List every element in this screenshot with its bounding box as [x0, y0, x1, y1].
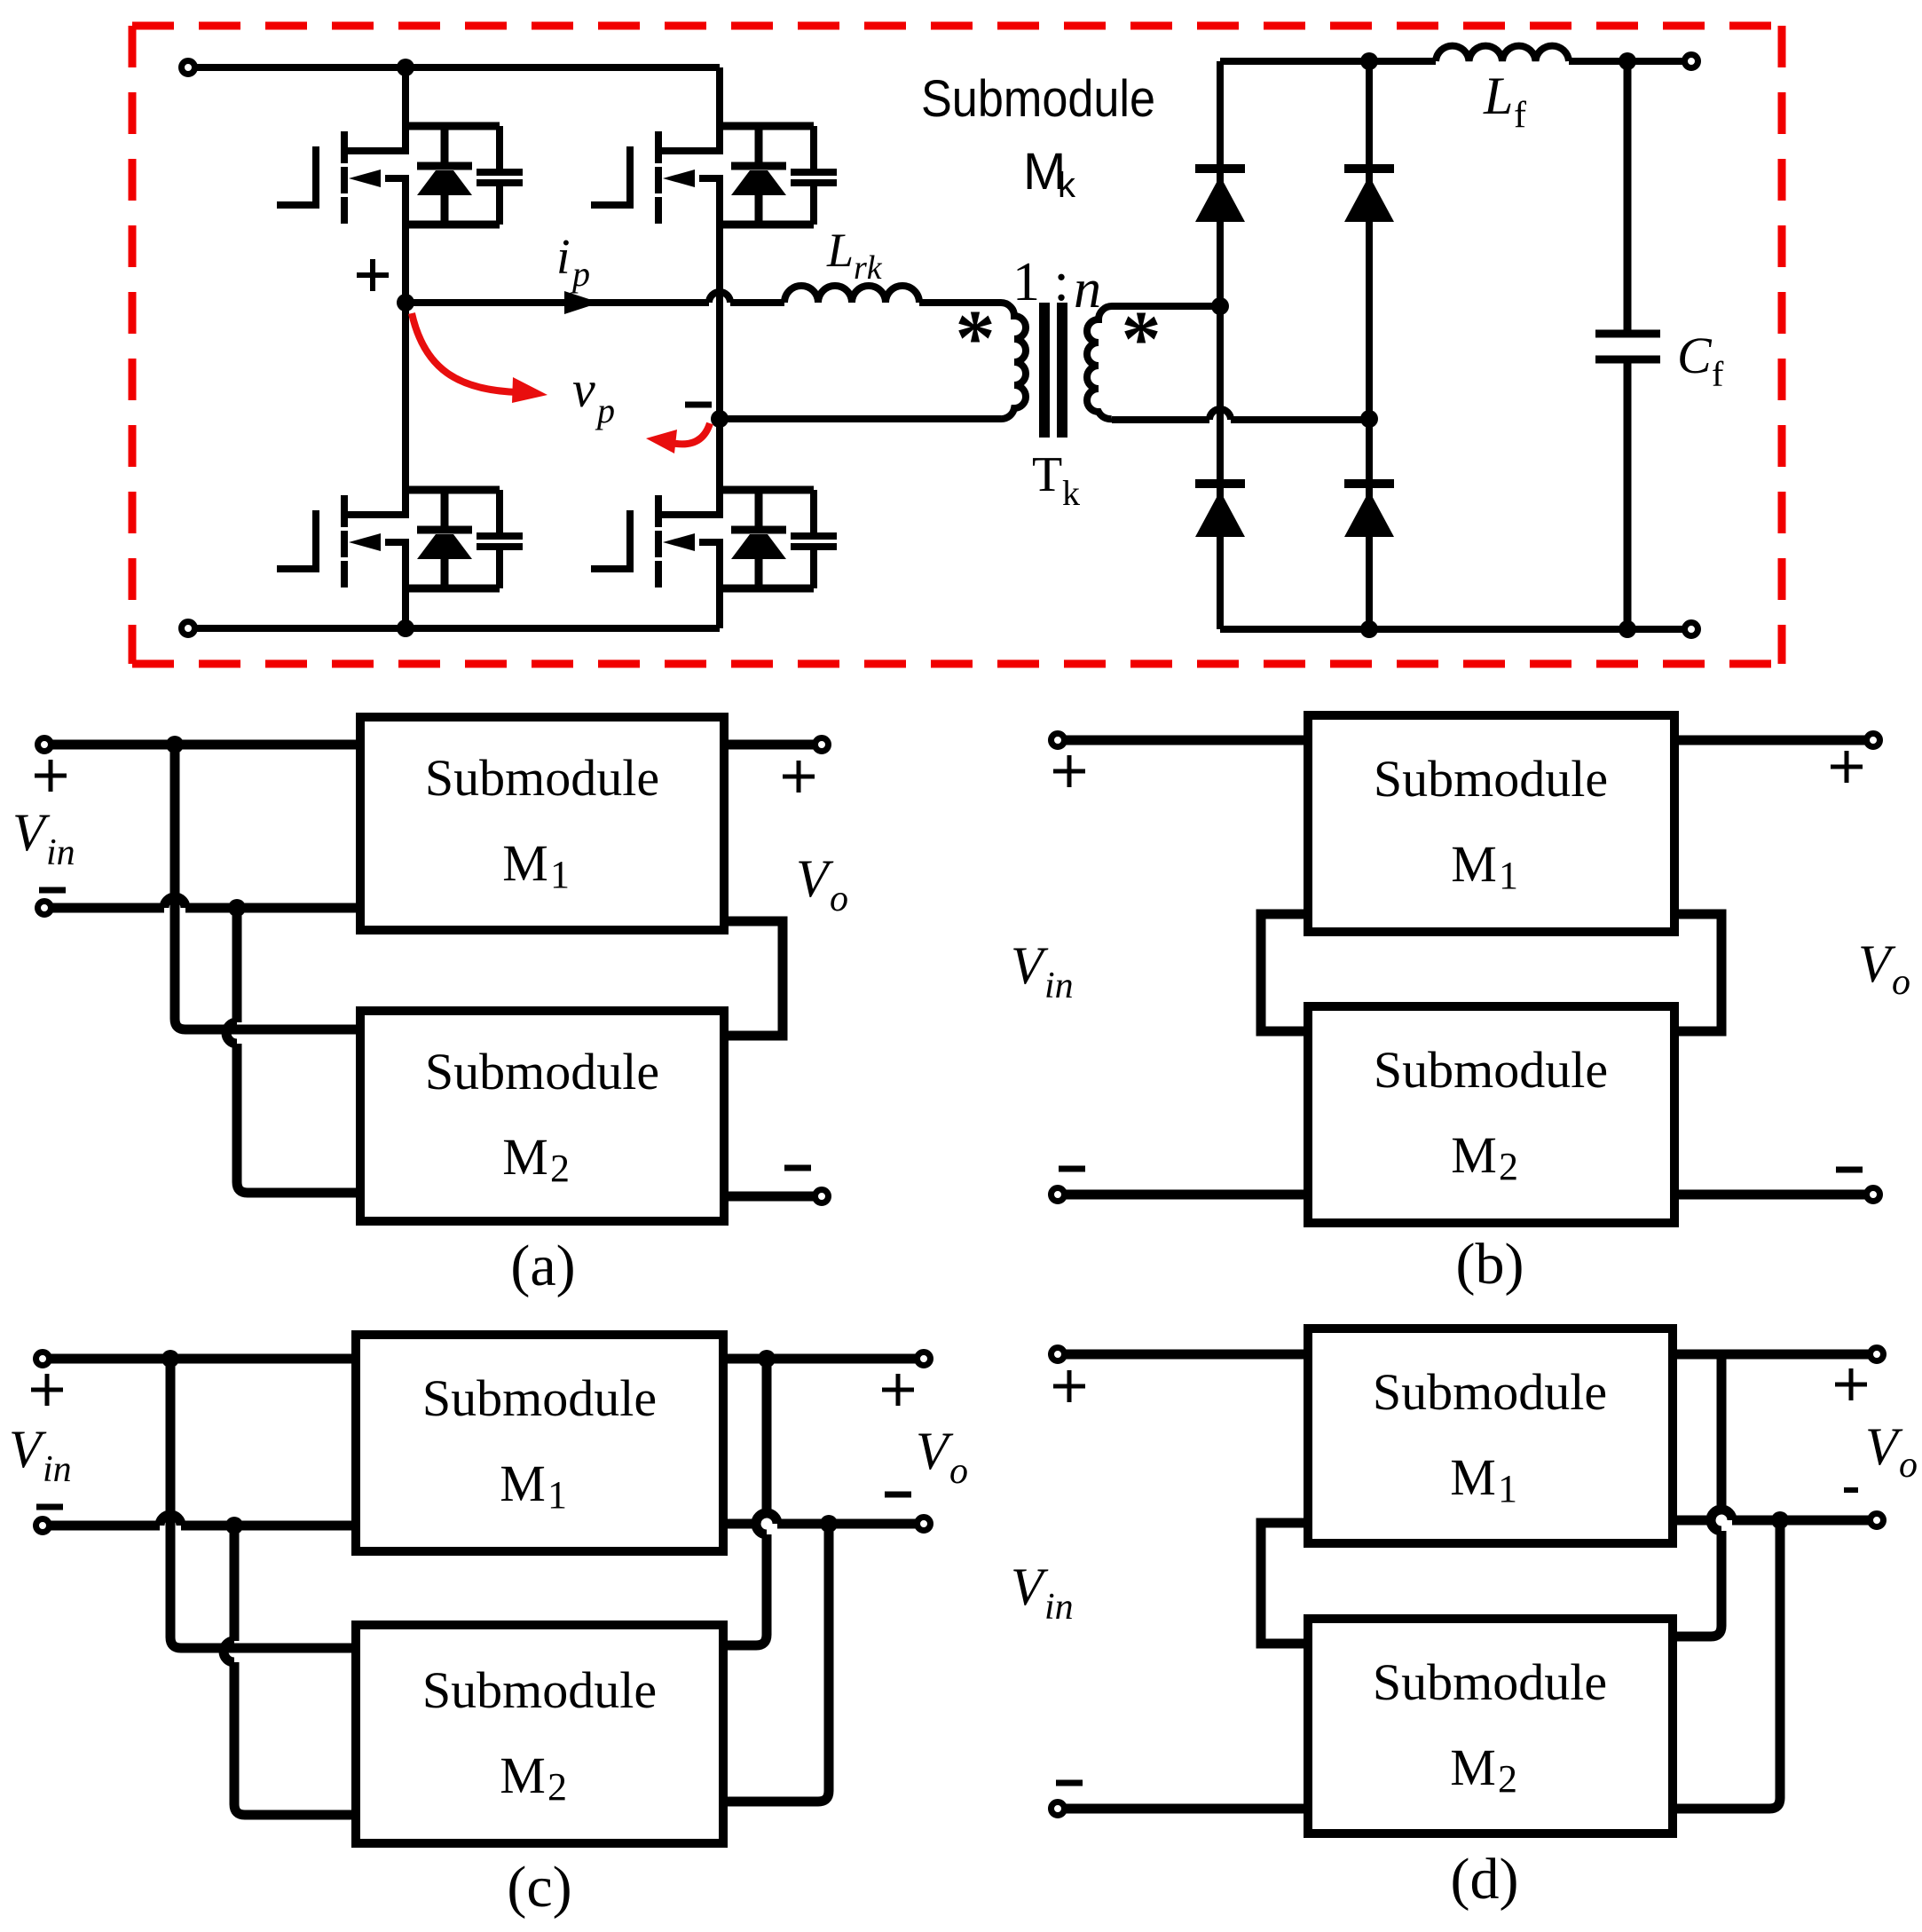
wire: Vin- wire with hop over first vertical (a) [51, 897, 356, 908]
svg-text:in: in [43, 1449, 72, 1490]
label: + output (a) [783, 761, 815, 793]
wire: Vin+ to M1 input (b) [1065, 736, 1304, 745]
node: junction dot Vo+ (c) [758, 1350, 776, 1368]
inductor Lf output filter inductor [1436, 46, 1569, 61]
label: + input (d) [1053, 1370, 1085, 1402]
node: Vin- terminal (d) [1052, 1802, 1065, 1816]
svg-text:f: f [1514, 95, 1526, 136]
node: Vin+ terminal (d) [1052, 1348, 1065, 1361]
wire: right bridge leg segments [716, 67, 723, 628]
wire: secondary top wire to rectifier left leg [1112, 303, 1220, 310]
node: junction dot Vo- (d) [1771, 1511, 1789, 1529]
wire: rectifier right leg [1366, 61, 1373, 629]
node: Vin- terminal (b) [1052, 1188, 1065, 1202]
node: - node on right leg (primary negative) [711, 410, 729, 428]
node: Vo+ terminal (a) [815, 738, 829, 752]
node: junction dot bottom rail Cf [1619, 620, 1636, 638]
node: junction dot Vin+ (c) [161, 1350, 179, 1368]
label: + output (c) [882, 1374, 914, 1406]
wire: vertical Vo- feed to M2 output- (c) [728, 1524, 829, 1802]
wire: vertical Vin- feed to M2 input- with hop (a) [226, 908, 356, 1193]
transistor Q3 bottom-left MOSFET with body diode and capacitor [277, 486, 523, 592]
box: Submodule M1 (c) [356, 1335, 723, 1551]
svg-text:V: V [12, 803, 51, 862]
submodule red dashed boundary box [132, 26, 1782, 664]
node: Vin+ terminal (c) [36, 1352, 50, 1366]
wire: vertical Vo- feed to M2 output- (d) [1677, 1520, 1780, 1809]
wire: Vin- to M2 input (b) [1065, 1190, 1304, 1200]
svg-text:i: i [556, 230, 571, 285]
node: junction dot Vo- (c) [820, 1515, 838, 1533]
svg-text:rk: rk [854, 249, 883, 287]
label: + sign at primary positive node [357, 259, 389, 291]
svg-text:Submodule: Submodule [422, 1661, 657, 1719]
svg-text:Submodule: Submodule [425, 749, 659, 807]
svg-text:M: M [502, 1128, 548, 1186]
svg-text:Submodule: Submodule [425, 1043, 659, 1100]
svg-text:1: 1 [1498, 1467, 1517, 1510]
svg-text:Submodule: Submodule [1373, 1653, 1607, 1711]
svg-text:L: L [1483, 67, 1513, 125]
svg-text:(b): (b) [1456, 1232, 1524, 1297]
wire: vertical Vin+ feed to M2 input+ (c) [170, 1359, 351, 1648]
node: output terminal top right [1685, 55, 1698, 68]
label: - output (c) [885, 1492, 911, 1498]
svg-text:f: f [1712, 354, 1724, 394]
box: Submodule M1 (b) [1308, 715, 1674, 932]
node: Vin- terminal (a) [38, 902, 51, 915]
wire: M1 output+ to Vo+ terminal (d) [1677, 1350, 1870, 1360]
svg-text:V: V [1011, 1557, 1049, 1616]
node: Vin+ terminal (b) [1052, 734, 1065, 747]
svg-text:V: V [1865, 1417, 1903, 1476]
svg-text:V: V [1011, 936, 1049, 995]
wire: primary wire ip from + node, hop over right leg [406, 292, 784, 303]
svg-text:Submodule: Submodule [1374, 750, 1608, 808]
svg-text:n: n [1074, 259, 1101, 319]
svg-text:C: C [1677, 327, 1713, 384]
svg-text:(d): (d) [1451, 1847, 1519, 1912]
svg-text:in: in [1044, 1587, 1074, 1628]
svg-text:M: M [500, 1747, 546, 1804]
svg-text:L: L [826, 224, 854, 277]
svg-text:v: v [572, 360, 595, 418]
label: - output (b) [1836, 1167, 1863, 1173]
wire: input series link M1 in- to M2 in+ (d) [1261, 1523, 1304, 1644]
label: + input (a) [35, 760, 67, 792]
box: Submodule M2 (b) [1308, 1006, 1674, 1223]
svg-text:k: k [1062, 473, 1080, 513]
svg-text:1: 1 [547, 1473, 567, 1517]
transistor Q4 bottom-right MOSFET with body diode and capacitor [591, 486, 837, 592]
svg-text:o: o [949, 1451, 968, 1492]
wire: rectifier bottom rail [1220, 626, 1684, 633]
node: Vo+ terminal (c) [918, 1352, 931, 1366]
svg-text:V: V [916, 1422, 954, 1480]
node: junction dot bottom rail / left leg [397, 619, 414, 637]
svg-text:M: M [502, 834, 548, 892]
diode D2 upper right rectifier [1344, 169, 1394, 222]
node: + node on left leg (primary positive) [397, 294, 414, 311]
svg-text:2: 2 [1498, 1757, 1517, 1801]
svg-text:M: M [1450, 1448, 1496, 1506]
wire: Vin+ to M1 input (d) [1065, 1350, 1304, 1360]
svg-text:o: o [1892, 962, 1910, 1003]
svg-text:M: M [1450, 1739, 1496, 1796]
wire: primary return wire from - node to transformer [720, 415, 1001, 422]
svg-text:in: in [46, 832, 75, 873]
transistor Q2 top-right MOSFET with body diode and capacitor [591, 122, 837, 228]
wire: M1 output- to Vo- terminal with hop (c) [728, 1513, 917, 1524]
wire: rectifier top rail to Lf [1220, 58, 1436, 65]
svg-text:1 :: 1 : [1012, 252, 1069, 312]
svg-text:V: V [796, 849, 834, 908]
transformer Tk core [1044, 303, 1062, 438]
wire: vertical Vin+ feed to M2 input+ (a) [175, 745, 356, 1029]
svg-text:1: 1 [550, 853, 570, 896]
svg-text:M: M [1451, 835, 1497, 893]
wire: Vin+ to M1 input (c) [50, 1354, 351, 1364]
svg-text:2: 2 [550, 1147, 570, 1190]
label: + input (c) [31, 1374, 63, 1406]
wire: Vin- wire with hop over first vertical (c) [50, 1515, 351, 1526]
transformer Tk secondary winding [1087, 306, 1112, 419]
svg-text:T: T [1032, 447, 1062, 502]
label: ip current arrowhead [564, 291, 600, 314]
box: Submodule M1 (d) [1308, 1329, 1673, 1543]
label: + output (d) [1835, 1368, 1867, 1400]
box: Submodule M2 (a) [360, 1011, 724, 1221]
wire: M2 output- to Vo- terminal (b) [1679, 1190, 1866, 1200]
svg-text:2: 2 [1499, 1145, 1518, 1188]
wire: vertical Vo+ feed to M2 output+ with hop (d) [1677, 1354, 1721, 1636]
wire: Vin+ to M1 input (a) [51, 740, 356, 750]
wire: M1 output+ to Vo+ terminal (a) [724, 740, 815, 750]
label: - input (b) [1059, 1166, 1085, 1172]
wire: top rail of full bridge [195, 64, 720, 71]
wire: series link M1 out- to M2 out+ (a) [724, 921, 783, 1036]
svg-text:M: M [1451, 1126, 1497, 1184]
label: - input (c) [36, 1504, 63, 1510]
node: junction dot Vin+ (a) [166, 736, 184, 753]
node: junction dot bottom rail right leg [1360, 620, 1378, 638]
svg-text:o: o [830, 879, 848, 919]
wire: left bridge leg segments [402, 67, 409, 628]
wire: from Lrk to transformer primary [919, 299, 1001, 306]
label: - sign at primary negative node [685, 402, 712, 408]
svg-text:p: p [570, 254, 590, 294]
svg-text:Submodule: Submodule [921, 70, 1155, 128]
node: junction dot top rail right leg [1360, 52, 1378, 70]
wire: vertical Vo+ feed to M2 output+ with hop (c) [728, 1359, 767, 1645]
inductor Lrk resonant inductor [784, 286, 919, 303]
node: Vo+ terminal (d) [1871, 1348, 1884, 1361]
wire: M1 output- to Vo- terminal with hop (d) [1677, 1510, 1870, 1520]
wire: vertical Vin- feed to M2 input- with hop (c) [224, 1526, 351, 1815]
svg-text:Submodule: Submodule [1374, 1041, 1608, 1099]
svg-text:o: o [1899, 1445, 1918, 1486]
diode D3 lower left rectifier [1195, 484, 1245, 537]
node: Vin+ terminal (a) [38, 738, 51, 752]
label: - output (a) [784, 1165, 811, 1171]
red arrow: vp reference from + node [412, 313, 519, 392]
svg-text:M: M [500, 1455, 546, 1512]
wire: bottom rail of full bridge [195, 625, 720, 632]
label: - input (d) [1056, 1780, 1083, 1786]
node: Vo- terminal (d) [1871, 1514, 1884, 1527]
diode D4 lower right rectifier [1344, 484, 1394, 537]
wire: rectifier left leg [1217, 61, 1224, 629]
node: junction dot Cf top [1619, 52, 1636, 70]
svg-text:(c): (c) [507, 1855, 571, 1920]
node: Vo- terminal (a) [815, 1190, 829, 1203]
node: junction dot secondary bottom / rectifier right leg [1360, 410, 1378, 428]
node: Vo- terminal (c) [918, 1518, 931, 1531]
transformer Tk primary winding [1001, 303, 1026, 419]
wire: input series link M1 in- to M2 in+ (b) [1261, 914, 1304, 1031]
svg-text:k: k [1058, 166, 1076, 205]
svg-text:1: 1 [1499, 854, 1518, 897]
node: junction dot secondary top / rectifier left leg [1211, 297, 1229, 315]
wire: secondary bottom wire with hop over rectifier left leg [1112, 409, 1369, 420]
node: output terminal bottom right [1685, 623, 1698, 636]
box: Submodule M2 (c) [356, 1625, 723, 1843]
transistor Q1 top-left MOSFET with body diode and capacitor [277, 122, 523, 228]
svg-text:V: V [1858, 934, 1896, 993]
svg-text:V: V [9, 1420, 47, 1479]
label: - input (a) [39, 887, 66, 894]
diode D1 upper left rectifier [1195, 169, 1245, 222]
label: - output (d) [1844, 1487, 1858, 1493]
box: Submodule M2 (d) [1308, 1619, 1673, 1833]
node: input terminal bottom-left of full bridge [182, 622, 195, 635]
red arrow: vp reference into - node [671, 423, 710, 444]
svg-text:Submodule: Submodule [422, 1369, 657, 1427]
wire: M1 output+ to Vo+ terminal (c) [728, 1354, 917, 1364]
label: + output (b) [1831, 751, 1863, 783]
wire: output series link M1 out- to M2 out+ (b) [1679, 914, 1721, 1031]
node: input terminal top-left of full bridge [182, 61, 195, 75]
capacitor Cf output filter capacitor [1595, 61, 1660, 629]
label: + input (b) [1053, 755, 1085, 787]
node: junction dot Vin- (a) [228, 899, 246, 917]
wire: M1 output+ to Vo+ terminal (b) [1679, 736, 1866, 745]
node: Vin- terminal (c) [36, 1519, 50, 1533]
svg-text:in: in [1044, 966, 1074, 1006]
svg-text:p: p [595, 390, 615, 430]
svg-text:(a): (a) [510, 1234, 575, 1298]
node: junction dot Vin- (c) [225, 1517, 243, 1534]
wire: top rail after Lf to output terminal [1569, 58, 1684, 65]
svg-text:Submodule: Submodule [1373, 1363, 1607, 1421]
wire: M2 output- to Vo- terminal (a) [724, 1192, 815, 1202]
box: Submodule M1 (a) [360, 717, 724, 930]
node: Vo+ terminal (b) [1867, 734, 1880, 747]
wire: Vin- to M2 input (d) [1065, 1804, 1304, 1814]
node: junction dot top rail / left leg [397, 59, 414, 76]
svg-text:*: * [956, 295, 996, 382]
svg-text:2: 2 [547, 1765, 567, 1809]
node: Vo- terminal (b) [1867, 1188, 1880, 1202]
